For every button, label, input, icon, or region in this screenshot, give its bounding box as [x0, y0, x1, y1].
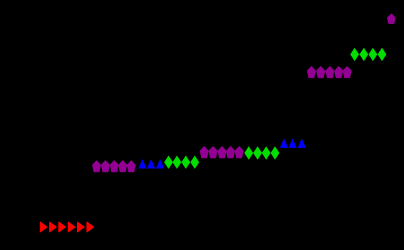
- series blue: upward triangle markers, second step row: [138, 159, 164, 169]
- series green: diamond markers, second step row: [164, 156, 199, 169]
- series red: right-pointing triangle markers, bottom-left row: [40, 222, 93, 232]
- series green: diamond markers, fourth step row: [350, 48, 386, 61]
- series purple: single pentagon marker, top-right: [388, 14, 395, 23]
- series purple: pentagon markers, second step row: [93, 161, 135, 171]
- series green: diamond markers, third step row: [244, 146, 279, 159]
- series purple: pentagon markers, third step row: [201, 147, 243, 157]
- series blue: upward triangle markers, third step row: [280, 138, 306, 148]
- series purple: pentagon markers, fourth step row: [308, 67, 351, 77]
